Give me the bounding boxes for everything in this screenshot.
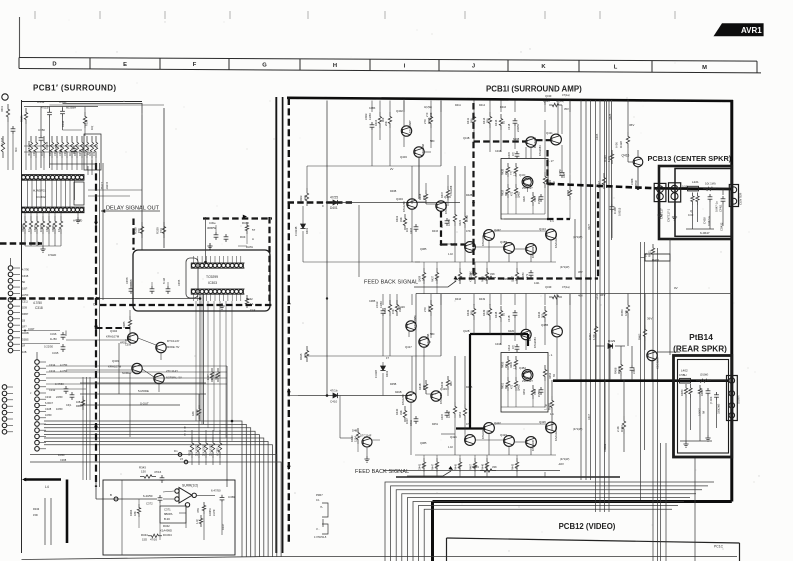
junction dot bbox=[204, 261, 207, 264]
wire bbox=[489, 128, 491, 141]
capacitor C312 bbox=[70, 392, 75, 400]
connector IC302 pin 13 bbox=[71, 175, 75, 179]
resistor R402 bbox=[403, 214, 406, 230]
svg-text:33K: 33K bbox=[399, 217, 403, 222]
svg-text:47K: 47K bbox=[92, 151, 96, 156]
svg-text:AVR1: AVR1 bbox=[741, 26, 762, 35]
connector IC302 row2 pin 4 bbox=[34, 208, 38, 212]
wire pin lead bbox=[39, 417, 46, 419]
wire bbox=[436, 262, 438, 268]
svg-text:(471(W): (471(W) bbox=[573, 427, 583, 431]
wire R428 to Q415 bbox=[627, 148, 629, 162]
wire bbox=[22, 343, 61, 345]
svg-text:FEED BACK SIGNAL: FEED BACK SIGNAL bbox=[364, 280, 418, 286]
wire vertical pair bbox=[611, 100, 613, 240]
wire top drop bbox=[557, 101, 559, 113]
connector CN A pin 4 bbox=[8, 285, 13, 290]
wire bus line bbox=[44, 421, 242, 557]
svg-text:KTA1268Y: KTA1268Y bbox=[408, 120, 412, 133]
IC303 TC9299 block bbox=[133, 250, 270, 311]
svg-text:1.9K: 1.9K bbox=[592, 334, 596, 340]
wire to PCB12 bbox=[665, 443, 667, 561]
PCB1 board bottom border bbox=[22, 557, 271, 560]
border tick mark bbox=[307, 11, 309, 19]
wire bbox=[198, 430, 200, 437]
wire pin link bbox=[40, 180, 42, 207]
wire pin lead bbox=[13, 267, 20, 269]
ground bbox=[75, 217, 80, 223]
wire bbox=[627, 294, 629, 301]
svg-text:DATA: DATA bbox=[246, 245, 253, 249]
svg-text:Q404: Q404 bbox=[396, 197, 403, 201]
svg-text:Q4B5: Q4B5 bbox=[420, 442, 427, 445]
wire bbox=[447, 175, 449, 186]
IC303 pin top 8 bbox=[222, 264, 226, 268]
svg-text:(01(W): (01(W) bbox=[700, 373, 708, 377]
bus lower amp v2 bbox=[527, 334, 529, 346]
svg-text:1.5K: 1.5K bbox=[435, 276, 438, 281]
surround amp box top border bbox=[287, 98, 733, 101]
wire below PCB13 right bbox=[669, 239, 671, 355]
wire bbox=[604, 380, 606, 452]
resistor R403 120 bbox=[356, 428, 359, 444]
svg-text:330(2W): 330(2W) bbox=[717, 404, 721, 414]
resistor 20K R307 bbox=[197, 437, 200, 458]
wire bbox=[7, 122, 9, 170]
transistor Q410 bbox=[526, 244, 537, 255]
connector IC302 row2 pin 14 bbox=[75, 208, 79, 212]
wire bbox=[198, 394, 200, 405]
wire pin stub bbox=[214, 256, 216, 264]
wire top drop bbox=[389, 101, 391, 113]
svg-text:E: E bbox=[184, 433, 186, 437]
resistor R332 bbox=[50, 136, 53, 158]
svg-text:1L/50: 1L/50 bbox=[50, 337, 57, 341]
wire tie to bus bbox=[50, 163, 97, 165]
resistor Q417 bbox=[515, 268, 518, 284]
bus to center spkr bbox=[548, 184, 654, 188]
resistor 2DK R3B7 bbox=[211, 437, 214, 458]
wire gnd stub bbox=[716, 400, 718, 428]
resistor R439 bbox=[446, 376, 449, 390]
svg-text:R40B: R40B bbox=[390, 190, 397, 193]
bus through connectors bbox=[654, 187, 731, 190]
wire top link bbox=[63, 103, 143, 105]
wire bbox=[486, 262, 488, 268]
svg-text:E: E bbox=[123, 62, 127, 68]
wire bbox=[61, 158, 63, 170]
wire 440 rail bbox=[476, 439, 504, 441]
wire bbox=[556, 362, 558, 380]
svg-text:Q: Q bbox=[690, 209, 692, 213]
bus dashed box left bbox=[132, 219, 134, 251]
wire 424 rail bbox=[494, 423, 546, 425]
capacitor C369 bbox=[220, 495, 225, 503]
IC303 row outline bbox=[191, 263, 243, 268]
op-amp section box bbox=[103, 480, 235, 555]
wire bbox=[556, 297, 558, 326]
wire pin lead bbox=[13, 324, 20, 326]
resistor R338 bbox=[140, 222, 143, 238]
transistor Q419 bbox=[431, 391, 441, 401]
wire bus line bbox=[44, 424, 246, 557]
wire vertical bus bbox=[585, 100, 587, 480]
wire bbox=[212, 430, 214, 437]
wire bbox=[198, 458, 200, 465]
junction dot bbox=[326, 201, 328, 203]
wire pin rail bottom bbox=[22, 179, 85, 181]
svg-text:R458: R458 bbox=[614, 367, 618, 374]
svg-text:F4B5: F4B5 bbox=[534, 388, 537, 395]
wire bbox=[382, 373, 384, 396]
wire forest tie bbox=[24, 151, 80, 153]
wire bbox=[508, 446, 510, 455]
svg-text:PCB1I (SURROUND AMP): PCB1I (SURROUND AMP) bbox=[486, 85, 582, 94]
wire drop bbox=[500, 294, 502, 305]
junction dot bbox=[326, 297, 328, 299]
svg-text:0 5HD: 0 5HD bbox=[48, 253, 56, 257]
resistor 1D bbox=[42, 136, 45, 158]
wire top drop bbox=[514, 101, 516, 113]
connector IC302 row2 pin 11 bbox=[63, 208, 67, 212]
resistor R432 bbox=[514, 356, 517, 370]
wire bbox=[366, 447, 368, 456]
wire pin lead bbox=[39, 380, 46, 382]
bus arrow on dashed box bbox=[243, 215, 247, 219]
wire bbox=[22, 330, 61, 332]
wire pin lead bbox=[39, 435, 46, 437]
connector IC302 pin 4 bbox=[34, 175, 38, 179]
svg-text:Q422: Q422 bbox=[494, 421, 501, 425]
wire pin lead bbox=[13, 343, 20, 345]
svg-text:1.1: 1.1 bbox=[550, 219, 554, 223]
connector CN A pin 9 bbox=[8, 317, 13, 322]
wire bbox=[91, 158, 93, 170]
wire bbox=[77, 212, 79, 217]
wire bbox=[423, 284, 425, 294]
connector IC302 pin 14 bbox=[75, 175, 79, 179]
svg-text:5T: 5T bbox=[252, 228, 256, 232]
wire bbox=[86, 158, 88, 170]
arrowhead feedback 2 bbox=[454, 276, 459, 280]
svg-text:KTE3206: KTE3206 bbox=[481, 235, 485, 246]
svg-text:KTA1268: KTA1268 bbox=[450, 185, 453, 196]
wire pin stub bbox=[236, 256, 238, 264]
wire pin lead bbox=[7, 405, 13, 407]
resistor R457 bbox=[594, 322, 597, 338]
connector IC302 row2 pin 10 bbox=[59, 208, 63, 212]
IC302 row outline bbox=[22, 175, 84, 181]
wire pin stub bbox=[218, 294, 220, 301]
wire pin lead bbox=[7, 431, 13, 433]
svg-text:5D: 5D bbox=[22, 281, 25, 284]
resistor 47D bbox=[85, 136, 88, 158]
wire noop2 bbox=[306, 346, 308, 356]
wire gnd rail bbox=[686, 228, 714, 230]
svg-text:B2: B2 bbox=[502, 312, 506, 316]
svg-text:C471: C471 bbox=[526, 273, 529, 280]
svg-text:R4B3: R4B3 bbox=[350, 435, 354, 442]
wire bbox=[620, 376, 622, 380]
IC303 pin bottom 12 bbox=[239, 290, 243, 294]
wire long vertical bbox=[440, 294, 442, 356]
svg-text:1DDB: 1DDB bbox=[22, 332, 29, 335]
connector IC302 pin 1 bbox=[22, 175, 26, 179]
wire stub to border bbox=[436, 472, 438, 477]
svg-text:47D: 47D bbox=[466, 423, 471, 426]
svg-text:R437: R437 bbox=[432, 275, 435, 282]
resistor R453 bbox=[531, 385, 534, 399]
wire bbox=[30, 158, 32, 170]
svg-text:33K: 33K bbox=[399, 410, 403, 415]
transistor Q425 bbox=[526, 437, 537, 448]
resistor R3B5 bbox=[128, 316, 131, 330]
svg-text:R308: R308 bbox=[189, 449, 192, 456]
resistor R303B bbox=[23, 216, 26, 234]
resistor R440 bbox=[403, 406, 406, 422]
wire forest tie bbox=[24, 145, 98, 147]
wire pin lead bbox=[13, 318, 20, 320]
wire drop bbox=[489, 294, 491, 305]
wire bbox=[609, 347, 611, 380]
bus feedback upper 2 bbox=[459, 277, 598, 279]
svg-text:B.2K: B.2K bbox=[164, 517, 170, 521]
wire low rail bbox=[303, 261, 420, 263]
connector IC302 pin 15 bbox=[80, 175, 84, 179]
svg-text:1000PA: 1000PA bbox=[40, 223, 43, 232]
connector IC302 row2 pin 12 bbox=[67, 208, 71, 212]
wire pin link bbox=[60, 180, 62, 207]
wire gnd stub bbox=[692, 205, 694, 229]
connector CN A pin 8 bbox=[8, 310, 13, 315]
wire bbox=[36, 234, 38, 246]
wire gnd stub bbox=[722, 204, 724, 226]
svg-text:J: J bbox=[472, 64, 475, 70]
svg-text:KTE3206: KTE3206 bbox=[481, 428, 485, 439]
wire bbox=[372, 439, 380, 441]
svg-text:36V: 36V bbox=[647, 317, 652, 321]
svg-text:KSA1220AY: KSA1220AY bbox=[554, 234, 558, 248]
svg-text:R443: R443 bbox=[466, 309, 470, 316]
svg-text:R42B: R42B bbox=[466, 386, 473, 389]
resistor R443 bbox=[515, 458, 518, 472]
junction Ln bbox=[184, 460, 188, 464]
resistor R458b bbox=[506, 356, 509, 370]
connector CN B pin 1 bbox=[35, 360, 40, 365]
wire bbox=[54, 234, 56, 246]
svg-text:15D: 15D bbox=[142, 538, 147, 542]
wire bus line bbox=[30, 455, 277, 558]
svg-text:C350: C350 bbox=[38, 128, 45, 132]
wire below PCB13 bbox=[644, 242, 646, 450]
wire stub bl2 bbox=[50, 498, 52, 545]
svg-text:-40V: -40V bbox=[558, 462, 564, 466]
wire pin stub bbox=[205, 294, 207, 301]
transistor Q421 bbox=[465, 435, 476, 446]
wire corner line bbox=[413, 502, 684, 561]
svg-text:30K: 30K bbox=[505, 384, 508, 389]
wire pin rail bbox=[191, 293, 245, 295]
svg-text:1DB: 1DB bbox=[22, 307, 27, 310]
wire bbox=[623, 380, 625, 416]
svg-text:1D(: 1D( bbox=[90, 126, 94, 130]
wire bbox=[473, 320, 475, 334]
wire bbox=[620, 346, 622, 360]
svg-text:150: 150 bbox=[137, 228, 141, 233]
connector IC302 pin 9 bbox=[55, 175, 59, 179]
resistor R3BT bbox=[81, 396, 84, 410]
resistor R414 bbox=[488, 112, 491, 128]
capacitor C352 bbox=[47, 110, 52, 118]
wire bbox=[557, 112, 559, 134]
svg-text:C308: C308 bbox=[60, 458, 67, 462]
capacitor C7403 bbox=[714, 392, 719, 400]
svg-text:C417: C417 bbox=[632, 367, 636, 374]
wire bbox=[507, 177, 509, 184]
svg-text:C414: C414 bbox=[508, 344, 511, 351]
wire bbox=[203, 514, 205, 540]
IC303 inner outline bbox=[186, 258, 198, 298]
svg-text:KTC3206: KTC3206 bbox=[531, 439, 535, 451]
transistor Q411 bbox=[551, 134, 562, 145]
wire bbox=[530, 147, 532, 158]
svg-text:KTA2084: KTA2084 bbox=[538, 145, 542, 156]
svg-text:0V: 0V bbox=[674, 286, 678, 290]
op-amp U IC304 bbox=[179, 488, 192, 504]
svg-text:30C: 30C bbox=[15, 147, 18, 152]
resistor D38S1 bbox=[53, 216, 56, 234]
IC303 pin top 12 bbox=[239, 264, 243, 268]
capacitor C418 bbox=[513, 118, 518, 126]
wire pin lead bbox=[39, 386, 46, 388]
svg-text:B: B bbox=[110, 493, 112, 497]
resistor C3B71 bbox=[35, 216, 38, 234]
connector CN A pin 7 bbox=[8, 304, 13, 309]
svg-text:L4: L4 bbox=[45, 485, 49, 489]
wire 455 rail bbox=[415, 454, 556, 456]
svg-text:R411: R411 bbox=[466, 117, 470, 124]
wire long vertical bbox=[464, 166, 466, 212]
wire bus to Q404 bbox=[340, 202, 460, 204]
transistor Q408 bbox=[526, 137, 536, 147]
svg-text:C371: C371 bbox=[164, 508, 171, 512]
resistor R33B bbox=[80, 136, 83, 158]
IC303 pin bottom 9 bbox=[226, 290, 230, 294]
svg-text:CNT117-1: CNT117-1 bbox=[666, 208, 670, 222]
wire to PCB12 bbox=[652, 258, 654, 561]
connector CN A pin 10 bbox=[8, 323, 13, 328]
resistor R464 bbox=[698, 385, 701, 397]
connector CN C pin 4 bbox=[2, 404, 7, 409]
svg-text:C4B5: C4B5 bbox=[369, 300, 376, 303]
svg-text:C313: C313 bbox=[49, 369, 56, 373]
svg-text:47(1B: 47(1B bbox=[41, 106, 49, 110]
wire bbox=[411, 199, 413, 204]
wire bbox=[515, 391, 517, 407]
svg-text:Q439: Q439 bbox=[545, 285, 552, 289]
resistor 10ohm 1W rear bbox=[696, 379, 711, 382]
wire pin lead bbox=[13, 299, 20, 301]
svg-text:KSA1220AY: KSA1220AY bbox=[554, 427, 558, 441]
wire bbox=[158, 384, 160, 392]
inductor L221 bbox=[688, 186, 699, 191]
wire bbox=[544, 322, 546, 345]
svg-text:Q4B4: Q4B4 bbox=[519, 366, 526, 370]
connector CN A pin 5 bbox=[8, 291, 13, 296]
wire bus line bbox=[44, 435, 259, 557]
wire bbox=[62, 117, 64, 131]
svg-text:20K: 20K bbox=[384, 121, 388, 126]
svg-text:R407: R407 bbox=[440, 191, 444, 198]
connector IC302 row2 pin 6 bbox=[42, 208, 46, 212]
svg-text:R451: R451 bbox=[432, 423, 439, 426]
capacitor C418b bbox=[513, 310, 518, 318]
terminal block SURR bbox=[727, 376, 738, 421]
svg-text:C318: C318 bbox=[35, 306, 43, 310]
wire bbox=[130, 282, 132, 286]
svg-text:5B0: 5B0 bbox=[430, 140, 435, 143]
wire cap join bbox=[722, 189, 724, 195]
wire bbox=[302, 231, 304, 262]
wire bus line bbox=[44, 445, 272, 557]
svg-text:1.1K: 1.1K bbox=[448, 253, 453, 256]
wire bbox=[500, 322, 502, 345]
wire bus to opamp bbox=[95, 480, 97, 499]
transistor Q416 bbox=[406, 321, 416, 331]
svg-text:R3B5: R3B5 bbox=[122, 321, 126, 328]
PCB12 inner box top bbox=[447, 538, 740, 543]
svg-text:C407: C407 bbox=[441, 221, 444, 228]
svg-text:CENTER: CENTER bbox=[739, 192, 743, 205]
bus lower amp h bbox=[470, 333, 528, 335]
wire pin lead bbox=[39, 429, 46, 431]
svg-text:Q304: Q304 bbox=[110, 329, 117, 333]
connector CN A pin 3 bbox=[8, 278, 13, 283]
resistor R482 bbox=[689, 384, 692, 398]
svg-text:KTA32BB: KTA32BB bbox=[439, 393, 443, 404]
wire bbox=[160, 353, 162, 360]
wire to Q304 bbox=[66, 339, 128, 341]
terminal SURR 3 bbox=[729, 403, 735, 409]
svg-text:D38S1: D38S1 bbox=[52, 224, 55, 232]
svg-text:6-0647: 6-0647 bbox=[700, 231, 710, 235]
wire bbox=[514, 126, 516, 149]
feedback parts box bbox=[160, 506, 186, 523]
svg-text:R303B: R303B bbox=[22, 224, 25, 232]
transistor Q401 DTC114F bbox=[362, 437, 372, 447]
svg-text:100PA: 100PA bbox=[208, 508, 212, 516]
transistor Q402 bbox=[401, 126, 411, 136]
svg-text:Q406: Q406 bbox=[450, 242, 457, 246]
wire bbox=[514, 318, 516, 341]
inductor L402 bbox=[680, 378, 691, 383]
svg-text:6-5K: 6-5K bbox=[615, 142, 619, 148]
svg-text:KRA107M: KRA107M bbox=[108, 365, 122, 369]
svg-text:D401: D401 bbox=[330, 206, 338, 210]
wire pin link bbox=[65, 180, 67, 207]
svg-text:(REAR SPKR): (REAR SPKR) bbox=[673, 345, 727, 354]
resistor R339 bbox=[162, 222, 165, 238]
wire noop3 bbox=[423, 338, 425, 347]
wire 2V rail bbox=[372, 165, 441, 167]
svg-text:TC9299: TC9299 bbox=[206, 275, 218, 279]
transistor Q415 bbox=[633, 157, 643, 167]
IC303 row2 outline bbox=[191, 289, 243, 294]
svg-text:(7.403: (7.403 bbox=[709, 396, 713, 404]
svg-text:D3BS: D3BS bbox=[22, 338, 29, 341]
wire stub to border bbox=[423, 472, 425, 477]
junction dot bbox=[199, 297, 202, 300]
